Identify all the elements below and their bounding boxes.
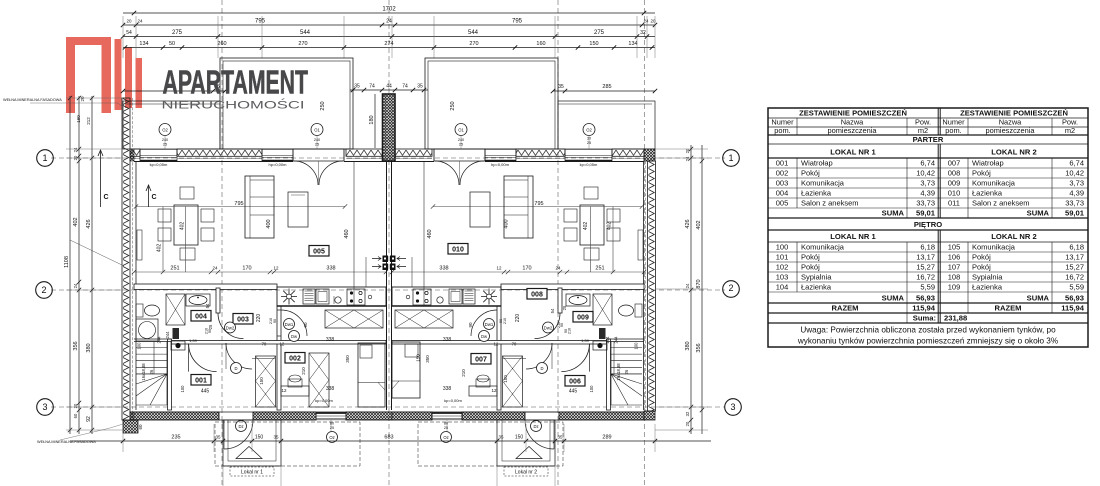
svg-text:445: 445: [201, 389, 210, 395]
svg-text:210: 210: [269, 318, 273, 324]
svg-text:25: 25: [208, 324, 213, 329]
tall cabinet with cross left unit bathroom: [166, 294, 185, 325]
svg-text:Lokal nr 2: Lokal nr 2: [515, 470, 537, 476]
door mark Dz lokal 2: [531, 421, 542, 432]
svg-text:24: 24: [685, 156, 690, 161]
svg-text:285: 285: [602, 84, 611, 90]
svg-text:210: 210: [301, 367, 306, 375]
room label 005: [309, 246, 329, 257]
svg-text:356: 356: [696, 343, 702, 352]
grid bubble 3 left: [37, 399, 54, 416]
svg-text:25: 25: [562, 305, 567, 310]
svg-text:kp=0,00m: kp=0,00m: [444, 398, 462, 403]
svg-text:32: 32: [685, 411, 690, 416]
chimney flue boxes left unit: [383, 256, 389, 263]
bottom exterior wall segment 5: [462, 412, 525, 420]
room label 002: [285, 353, 305, 364]
section mark C left outside: [100, 150, 102, 207]
svg-text:Dw1: Dw1: [285, 322, 294, 327]
svg-text:106: 106: [948, 253, 961, 262]
stair winders left unit: [136, 374, 167, 405]
tall cabinet with cross right unit bathroom: [593, 294, 612, 325]
stair flight left unit: [166, 342, 168, 406]
svg-text:24: 24: [386, 19, 392, 25]
svg-text:59,01: 59,01: [916, 209, 936, 218]
vent arrows left unit: [372, 257, 381, 261]
grid axis vertical line D: [557, 0, 559, 486]
svg-text:pomieszczenia: pomieszczenia: [828, 126, 878, 135]
svg-text:5,59: 5,59: [920, 283, 935, 292]
svg-text:544: 544: [468, 30, 479, 36]
svg-text:009: 009: [577, 315, 589, 322]
bottom dimension chain (235 35 150 35 683 35 150 35 289): [70, 440, 711, 442]
svg-text:338: 338: [326, 386, 335, 392]
svg-text:20: 20: [685, 421, 690, 426]
svg-text:26: 26: [149, 369, 154, 374]
svg-text:pom.: pom.: [774, 126, 790, 135]
svg-text:1: 1: [728, 153, 733, 163]
svg-text:400: 400: [504, 219, 510, 228]
svg-text:210: 210: [557, 322, 561, 328]
washbasin counter left unit: [186, 294, 210, 306]
svg-text:1,39: 1,39: [189, 338, 198, 343]
bottom wall window room 007: [432, 412, 462, 414]
interior wall below living room right unit: [501, 284, 644, 290]
svg-text:Łazienka: Łazienka: [801, 283, 832, 292]
door mark Dw3 right unit room007: [479, 331, 490, 342]
kitchen sink left unit: [335, 297, 341, 303]
interior wall hall-room007 divider right unit: [497, 306, 501, 410]
svg-text:25: 25: [330, 426, 334, 430]
kitchen counter right unit: [392, 287, 501, 306]
svg-text:402: 402: [157, 244, 163, 253]
terrace outline right unit: [425, 58, 558, 149]
svg-text:Oz: Oz: [443, 435, 448, 440]
room label 007: [471, 354, 491, 365]
svg-text:103: 103: [776, 273, 789, 282]
svg-text:hp=0,00m: hp=0,00m: [491, 162, 510, 167]
svg-text:212: 212: [86, 117, 91, 125]
svg-text:Salon z aneksem: Salon z aneksem: [972, 199, 1030, 208]
svg-text:20: 20: [126, 19, 132, 24]
svg-text:6,74: 6,74: [1069, 159, 1084, 168]
svg-text:15,27: 15,27: [916, 263, 935, 272]
svg-text:20: 20: [80, 96, 85, 102]
grid bubble 1 left: [37, 150, 54, 167]
svg-text:4,39: 4,39: [920, 189, 935, 198]
svg-text:244: 244: [157, 336, 162, 344]
roof outline far left: [123, 101, 220, 149]
interior wall stairs-wiatrolap divider right unit: [607, 339, 611, 410]
svg-text:74: 74: [402, 84, 408, 90]
logo bar 5: [136, 58, 143, 108]
top dimension chain row 1 (1702): [123, 12, 655, 14]
svg-text:WEŁNA MINERALNA FASADOWA: WEŁNA MINERALNA FASADOWA: [3, 98, 62, 102]
door mark Dw2 right unit: [543, 322, 554, 333]
svg-text:12: 12: [280, 342, 285, 347]
interior wall below living room left unit: [134, 284, 277, 290]
door arc closet area right unit: [526, 343, 552, 369]
svg-text:002: 002: [776, 169, 789, 178]
bottom wall entrance door opening lokal 2: [525, 411, 559, 413]
svg-text:35: 35: [354, 84, 360, 90]
svg-text:5,59: 5,59: [1069, 283, 1084, 292]
svg-text:m2: m2: [918, 126, 928, 135]
window mark O2 left top: [159, 124, 171, 136]
svg-text:35: 35: [215, 435, 221, 440]
svg-text:270: 270: [469, 41, 478, 47]
svg-text:009: 009: [948, 179, 961, 188]
left exterior wall (mineral wool facade): [122, 98, 130, 420]
svg-text:250: 250: [450, 101, 456, 110]
svg-text:24: 24: [555, 266, 561, 271]
top exterior wall right-of-chimney segment: [395, 149, 432, 156]
svg-text:3,73: 3,73: [920, 179, 935, 188]
grid axis vertical line B: [221, 0, 223, 486]
dining chairs left unit: [158, 209, 171, 222]
svg-text:220: 220: [515, 314, 521, 323]
svg-text:LOKAL NR 2: LOKAL NR 2: [991, 232, 1036, 241]
entrance door arc lokal 1: [224, 420, 253, 449]
svg-text:LOKAL NR 1: LOKAL NR 1: [830, 232, 876, 241]
svg-text:kp=0,00m: kp=0,00m: [315, 398, 333, 403]
svg-text:104: 104: [776, 283, 789, 292]
svg-text:56,93: 56,93: [916, 294, 935, 303]
kitchen hob right unit: [413, 289, 431, 305]
roof outline far right: [558, 101, 655, 149]
bottom wall entrance door opening lokal 1: [219, 411, 253, 413]
sofa left unit: [245, 176, 274, 238]
svg-text:15,27: 15,27: [1065, 263, 1084, 272]
kitchen sink right unit: [437, 297, 443, 303]
svg-text:2: 2: [728, 283, 733, 293]
porch canopy triangle lokal 1: [236, 447, 262, 459]
svg-text:kp=0,05m: kp=0,05m: [150, 162, 168, 167]
svg-text:ZESTAWIENIE POMIESZCZEŃ: ZESTAWIENIE POMIESZCZEŃ: [799, 109, 907, 118]
left dimension chain inner (24 20 402 24 356 20 60): [78, 96, 80, 434]
svg-text:338: 338: [443, 386, 452, 392]
room label 004: [191, 311, 211, 322]
boiler left unit: [171, 341, 185, 350]
living room dim line 402 left: [162, 207, 164, 273]
svg-text:6,18: 6,18: [1069, 243, 1084, 252]
svg-text:D: D: [540, 366, 543, 371]
svg-text:50: 50: [169, 41, 175, 47]
svg-text:54: 54: [126, 30, 132, 36]
svg-text:35: 35: [557, 435, 563, 440]
svg-text:210: 210: [503, 318, 507, 324]
window mark O1 left top: [311, 124, 323, 136]
svg-text:101: 101: [776, 253, 789, 262]
svg-text:115,94: 115,94: [912, 304, 936, 313]
bottom wall inner face line: [134, 411, 219, 413]
porch canopy triangle lokal 2: [516, 447, 542, 459]
svg-text:16x18,88: 16x18,88: [141, 363, 146, 381]
interior wall hall-room002 divider left unit: [277, 306, 281, 410]
svg-text:107: 107: [948, 263, 961, 272]
svg-text:426: 426: [685, 219, 691, 228]
coffee table left unit: [288, 192, 308, 227]
door arc corridor to wiatrolap left unit: [189, 344, 217, 372]
svg-text:1108: 1108: [64, 256, 70, 268]
svg-text:35: 35: [417, 84, 423, 90]
door arc closet area left unit: [226, 343, 252, 369]
chimney dimension row (35 74 44 74 35): [350, 89, 428, 91]
svg-text:70: 70: [512, 342, 517, 347]
dimension extension lines right side: [655, 148, 708, 150]
svg-text:460: 460: [344, 229, 350, 238]
bottom exterior wall segment 3: [346, 412, 392, 420]
svg-text:100: 100: [180, 385, 185, 393]
chimney vertical dimension 180: [374, 94, 376, 148]
svg-text:90: 90: [208, 329, 212, 333]
svg-text:005: 005: [313, 249, 325, 256]
top wall window O1 left unit: [262, 148, 293, 150]
svg-text:1,39: 1,39: [581, 338, 590, 343]
door mark Dw2 left unit: [225, 322, 236, 333]
bottom wall window room 002: [316, 412, 346, 414]
svg-text:275: 275: [594, 30, 605, 36]
coffee table right unit: [470, 192, 490, 227]
bed room 002: [358, 343, 385, 407]
svg-text:12: 12: [273, 266, 279, 271]
svg-text:150: 150: [416, 354, 421, 362]
svg-text:D: D: [234, 366, 237, 371]
top wall terrace door opening left unit: [293, 148, 344, 150]
svg-text:Dw: Dw: [291, 334, 298, 339]
grid axis horizontal line 3: [51, 406, 725, 408]
svg-text:Komunikacja: Komunikacja: [972, 179, 1016, 188]
roof dimension line left (285 35): [123, 90, 225, 92]
svg-text:380: 380: [86, 343, 92, 352]
svg-text:338: 338: [326, 337, 335, 343]
grid bubble 1 right: [723, 150, 740, 167]
top dimension chain row 2 (795 24 795): [123, 24, 655, 26]
living room dim line 795 left: [136, 206, 345, 208]
svg-text:008: 008: [531, 292, 543, 299]
svg-text:460: 460: [427, 229, 433, 238]
room label 009: [573, 312, 593, 323]
svg-text:150: 150: [589, 41, 598, 47]
room label 006: [565, 376, 585, 387]
chimney stack at party wall: [383, 94, 396, 161]
left dimension chain middle (426 380 92): [91, 96, 93, 434]
svg-text:O2: O2: [162, 128, 168, 133]
wardrobe corridor left unit: [309, 353, 329, 407]
porch slab lokal 2: [497, 420, 555, 466]
svg-text:001: 001: [195, 378, 207, 385]
svg-text:NIERUCHOMOŚCI: NIERUCHOMOŚCI: [162, 98, 305, 111]
porch label lokal 1: [230, 467, 274, 476]
svg-text:C: C: [151, 194, 156, 201]
svg-text:683: 683: [384, 435, 393, 441]
svg-text:445: 445: [569, 389, 578, 395]
grid axis horizontal line 1: [51, 157, 725, 159]
svg-text:pomieszczenia: pomieszczenia: [986, 126, 1036, 135]
svg-text:115,94: 115,94: [1061, 304, 1085, 313]
room schedule table vertical lines: [937, 108, 939, 135]
svg-text:011: 011: [948, 199, 960, 208]
svg-text:Lokal nr 1: Lokal nr 1: [241, 470, 263, 476]
svg-text:74: 74: [369, 84, 375, 90]
svg-text:Pokój: Pokój: [972, 169, 991, 178]
top exterior wall left-centre segment: [177, 149, 262, 156]
svg-text:795: 795: [234, 201, 243, 207]
kitchen zone boundary line right unit: [423, 161, 425, 306]
door arc hall to kitchen area right unit: [471, 310, 497, 336]
svg-text:35: 35: [273, 435, 279, 440]
door mark Dz lokal 1: [236, 421, 247, 432]
dimension extension lines bottom: [122, 424, 124, 452]
svg-text:PIĘTRO: PIĘTRO: [914, 220, 942, 229]
svg-text:402: 402: [696, 220, 702, 229]
svg-text:90: 90: [468, 322, 473, 328]
svg-text:338: 338: [443, 337, 452, 343]
svg-text:160: 160: [536, 41, 545, 47]
svg-text:60: 60: [138, 424, 143, 430]
bottom exterior wall segment 4: [392, 412, 432, 420]
svg-text:244: 244: [614, 336, 619, 344]
window mark O1 right top: [455, 124, 467, 136]
closet with cross right unit hall: [503, 356, 523, 407]
svg-text:Komunikacja: Komunikacja: [801, 243, 845, 252]
svg-text:10,42: 10,42: [1065, 169, 1084, 178]
svg-text:16x18,88: 16x18,88: [616, 363, 621, 381]
svg-text:008: 008: [948, 169, 961, 178]
chimney flue boxes right unit: [390, 256, 396, 263]
svg-text:105: 105: [948, 243, 961, 252]
svg-text:108: 108: [948, 273, 961, 282]
kitchen extractor fan symbol right unit: [481, 289, 497, 305]
door mark Dw3 left unit room002: [289, 331, 300, 342]
door arc corridor to wiatrolap right unit: [561, 344, 589, 372]
porch roof dashed lokal 2: [418, 422, 563, 466]
kitchen island wardrobe with cross right unit: [395, 310, 453, 328]
svg-text:275: 275: [172, 30, 183, 36]
svg-text:PARTER: PARTER: [913, 135, 944, 144]
terrace french door arcs right unit: [435, 161, 459, 185]
svg-text:350: 350: [425, 355, 430, 363]
interior dimension row right unit (338 12 170 24 251): [392, 271, 644, 273]
svg-text:002: 002: [289, 356, 301, 363]
party wall between units: [386, 161, 388, 410]
svg-text:210: 210: [205, 328, 209, 334]
svg-text:244: 244: [605, 336, 610, 344]
svg-text:251: 251: [595, 266, 604, 272]
svg-text:Salon z aneksem: Salon z aneksem: [801, 199, 859, 208]
svg-text:270: 270: [298, 41, 307, 47]
svg-text:150: 150: [515, 435, 524, 441]
svg-text:10,42: 10,42: [916, 169, 935, 178]
svg-text:150: 150: [259, 377, 264, 385]
svg-text:102: 102: [776, 263, 789, 272]
interior wall bathroom-hall divider left unit: [216, 288, 220, 313]
svg-text:16,72: 16,72: [1065, 273, 1084, 282]
svg-text:Komunikacja: Komunikacja: [972, 243, 1016, 252]
bathtub left unit: [136, 319, 158, 341]
svg-text:70: 70: [262, 342, 267, 347]
dimension extension lines top: [122, 16, 124, 58]
room label 010: [448, 244, 468, 255]
svg-text:wykonaniu tynków powierzchnia: wykonaniu tynków powierzchnia pomieszcze…: [797, 337, 1058, 346]
svg-text:870: 870: [696, 279, 702, 288]
bed room 007: [392, 342, 420, 398]
svg-text:251: 251: [170, 266, 179, 272]
interior wall corridor horizontal left unit: [171, 341, 386, 345]
top exterior wall right segment: [612, 149, 644, 156]
interior wall bathroom-hall divider right unit: [558, 288, 562, 313]
svg-text:O2: O2: [586, 128, 592, 133]
top exterior wall right-centre segment: [516, 149, 565, 156]
svg-text:13,17: 13,17: [916, 253, 935, 262]
svg-text:Wiatrołap: Wiatrołap: [972, 159, 1004, 168]
svg-text:26: 26: [624, 369, 629, 374]
svg-text:3: 3: [730, 402, 735, 412]
svg-text:56,93: 56,93: [1065, 294, 1084, 303]
door mark Dw1 right unit: [484, 319, 495, 330]
svg-text:2: 2: [41, 285, 46, 295]
toilet left unit: [136, 304, 143, 317]
svg-text:544: 544: [300, 30, 311, 36]
svg-text:Pokój: Pokój: [801, 169, 820, 178]
svg-text:134: 134: [628, 41, 637, 47]
washer dark column left unit: [173, 328, 180, 339]
svg-text:LOKAL NR 1: LOKAL NR 1: [830, 148, 876, 157]
svg-text:LOKAL NR 2: LOKAL NR 2: [991, 148, 1036, 157]
svg-text:WEŁNA MINERALNA FASADOWA: WEŁNA MINERALNA FASADOWA: [37, 440, 96, 444]
svg-text:ZESTAWIENIE POMIESZCZEŃ: ZESTAWIENIE POMIESZCZEŃ: [960, 109, 1068, 118]
svg-text:6,18: 6,18: [920, 243, 935, 252]
svg-text:3,73: 3,73: [1069, 179, 1084, 188]
svg-text:90: 90: [273, 319, 277, 323]
bottom exterior wall segment 2: [253, 412, 316, 420]
svg-text:54: 54: [550, 308, 555, 313]
svg-text:Łazienka: Łazienka: [972, 283, 1003, 292]
logo bar 1 with top cap: [66, 37, 111, 113]
porch roof dashed lokal 1: [215, 422, 360, 466]
logo bar 4: [125, 47, 132, 108]
svg-text:35: 35: [498, 435, 504, 440]
svg-text:400: 400: [266, 219, 272, 228]
kitchen oven right unit: [449, 289, 462, 304]
svg-text:004: 004: [776, 189, 789, 198]
svg-text:350: 350: [345, 355, 350, 363]
svg-text:150: 150: [503, 375, 508, 383]
svg-text:231,88: 231,88: [944, 314, 967, 323]
svg-text:Dw1: Dw1: [485, 322, 494, 327]
svg-text:44: 44: [386, 84, 392, 90]
svg-text:33,73: 33,73: [916, 199, 935, 208]
svg-text:004: 004: [195, 314, 207, 321]
interior wall stairs-wiatrolap divider left unit: [168, 339, 172, 410]
svg-text:SUMA: SUMA: [882, 294, 905, 303]
kitchen counter left unit: [277, 287, 386, 306]
tv board left unit: [137, 230, 142, 260]
stair flight right unit: [610, 342, 612, 406]
svg-text:20: 20: [73, 403, 78, 408]
dimension extension lines left side: [66, 97, 123, 99]
room schedule table horizontal lines: [768, 117, 1088, 119]
svg-text:SUMA: SUMA: [1027, 209, 1050, 218]
svg-text:338: 338: [326, 266, 335, 272]
room label 001: [191, 375, 211, 386]
svg-text:Dw2: Dw2: [226, 325, 235, 330]
svg-text:12: 12: [496, 266, 502, 271]
svg-text:Pokój: Pokój: [972, 263, 991, 272]
svg-text:402: 402: [583, 222, 589, 231]
svg-text:Łazienka: Łazienka: [801, 189, 832, 198]
boiler right unit: [593, 341, 607, 350]
